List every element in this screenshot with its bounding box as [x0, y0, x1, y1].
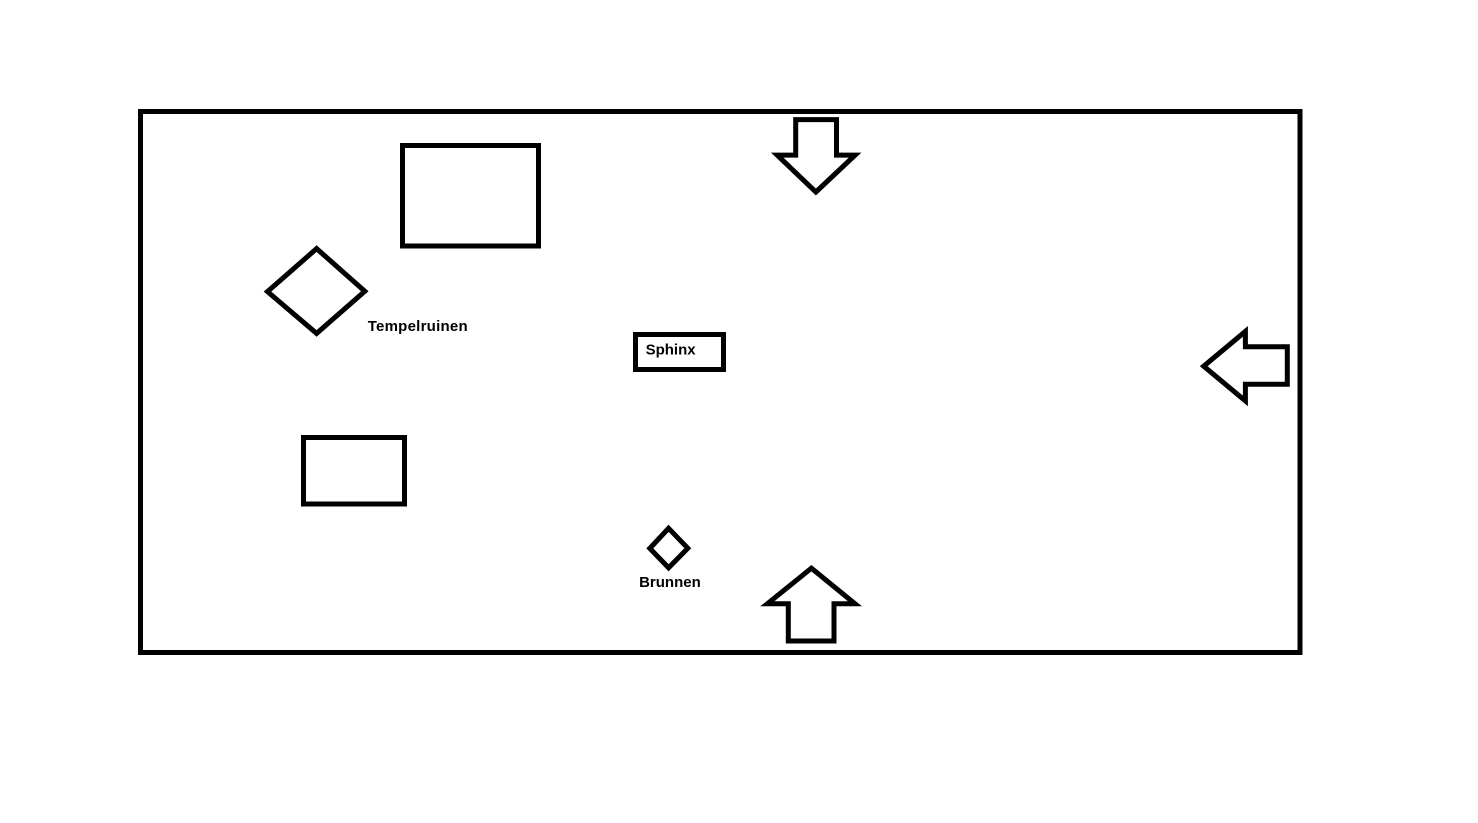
- svg-text:Tempelruinen: Tempelruinen: [368, 318, 468, 335]
- svg-text:Brunnen: Brunnen: [639, 574, 701, 591]
- svg-text:Sphinx: Sphinx: [646, 342, 697, 359]
